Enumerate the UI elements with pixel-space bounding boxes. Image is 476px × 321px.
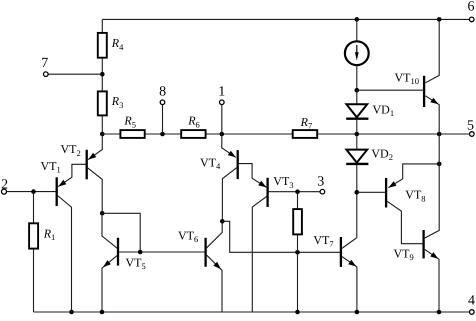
VT9 emitter wire to rail 4 [425, 249, 439, 312]
junction VT8 base node [355, 190, 360, 195]
VT4 collector wire down to node [222, 168, 237, 222]
junction VT10 base node [355, 88, 360, 93]
VT10 emitter wire to net 5 [425, 96, 439, 134]
junction VT7 emitter / rail 4 [355, 310, 360, 315]
resistor R2 (divider) [293, 209, 302, 234]
junction VT4/VT6 collectors node [220, 219, 225, 224]
VT3 emitter arrow [258, 181, 266, 188]
VT4 base wire to VT3 emitter [238, 164, 266, 188]
junction VT5 base node [138, 250, 143, 255]
wire positive rail net 6 [102, 18, 469, 20]
junction terminal 8 node [160, 132, 165, 137]
wire bus R5 to R6 [145, 133, 182, 135]
wire bus R6 to R7 [206, 133, 293, 135]
wire divider resistor to rail 4 [297, 234, 299, 312]
junction top rail / VT10 collector [437, 17, 442, 22]
VT1 emitter wire to VT2 base [58, 164, 86, 186]
terminal 4 [470, 310, 475, 315]
transistor VT10 [423, 76, 425, 107]
VT2 emitter wire from bus node [88, 134, 102, 160]
junction VT2/VT5 collector node [100, 211, 105, 216]
svg-text:1: 1 [218, 85, 225, 100]
junction VT8 emitter / net5 column [437, 162, 442, 167]
VT5 base wire to VT6 base [119, 251, 205, 253]
svg-text:8: 8 [159, 85, 166, 100]
resistor R6 [181, 130, 205, 138]
VT5 emitter wire to rail 4 [102, 256, 117, 312]
terminal 5 [470, 132, 475, 137]
junction divider / VT7 base [295, 250, 300, 255]
VT10 base wire [357, 89, 423, 91]
transistor VT5 [117, 238, 119, 266]
VT7 emitter wire to rail 4 [342, 257, 357, 312]
VT4 emitter arrow [228, 151, 236, 158]
terminal 2 [2, 189, 7, 194]
wire top rail to current source [356, 19, 358, 41]
junction divider / rail 4 [295, 310, 300, 315]
transistor VT7 [340, 237, 342, 267]
wire collector node to VT7 base line [222, 221, 340, 252]
junction terminal 3 / divider resistor [295, 189, 300, 194]
VT9 emitter arrow [430, 252, 438, 259]
resistor R4 [98, 33, 107, 58]
VT9 collector wire up to net 5 [425, 134, 439, 238]
transistor VT1 [56, 177, 58, 206]
VT7 emitter arrow [348, 260, 356, 267]
wire node 3 to divider resistor [297, 192, 299, 209]
junction top rail / current source [355, 17, 360, 22]
terminal 6 [469, 17, 474, 22]
VT4 emitter wire from terminal 1 node [222, 134, 236, 157]
wire mirror node to VT5 base [102, 213, 140, 252]
svg-text:2: 2 [1, 178, 8, 193]
svg-text:3: 3 [317, 174, 324, 189]
junction VT1 collector / rail 4 [69, 310, 74, 315]
wire R4 to R3 [101, 58, 103, 92]
terminal 1 [220, 100, 225, 105]
transistor VT8 [385, 178, 387, 208]
VT1 collector wire to rail 4 [58, 196, 72, 313]
VT1 emitter arrow [58, 180, 66, 187]
wire VD1 cathode to bus [356, 119, 358, 149]
wire current source to VD1 [356, 65, 358, 104]
VT5 emitter arrow [103, 260, 111, 267]
terminal 7 [44, 72, 49, 77]
svg-text:6: 6 [468, 0, 475, 14]
VT3 collector wire to rail 4 [252, 196, 266, 312]
svg-text:4: 4 [468, 293, 475, 308]
junction node 7 [100, 72, 105, 77]
wire terminal 1 drop [221, 105, 223, 134]
wire negative rail net 4 [34, 311, 470, 313]
resistor R1 [29, 223, 38, 248]
VT2 emitter arrow [88, 153, 96, 160]
wire VD2 cathode to VT7 collector [356, 164, 358, 238]
junction R3 / bus / VT2 emitter [100, 132, 105, 137]
VT7 collector wire to VD2 [342, 238, 357, 249]
resistor R3 [98, 91, 107, 115]
VT6 emitter arrow [213, 262, 221, 270]
junction R1 top node [31, 189, 36, 194]
VT5 collector wire up to mirror node [102, 213, 117, 248]
transistor VT6 [204, 238, 206, 267]
VT10 emitter arrow [430, 98, 438, 105]
transistor VT9 [422, 230, 424, 258]
wire top rail down to R4 [101, 19, 103, 33]
VT6 emitter wire to rail 4 [207, 255, 222, 312]
terminal 8 [160, 100, 165, 105]
wire terminal 2 to VT1 base [7, 191, 56, 193]
diode VD1 [346, 104, 367, 117]
wire node to R1 [33, 192, 35, 224]
diode VD2 [346, 150, 367, 163]
junction VT5 emitter / rail 4 [100, 310, 105, 315]
terminal 3 [320, 189, 325, 194]
VT6 collector wire up to VT4 node [207, 221, 223, 248]
wire terminal 7 [48, 73, 102, 75]
VT2 collector wire down to mirror node [88, 168, 103, 214]
resistor R7 [293, 130, 318, 138]
wire bus R7 to terminal 5 (net 5) [317, 133, 469, 135]
wire R1 bottom to rail 4 [33, 249, 35, 312]
junction diode node VD1/VD2 [355, 132, 360, 137]
junction terminal 1 / VT4 emitter node [220, 132, 225, 137]
transistor VT3 [266, 178, 268, 207]
transistor VT4 [237, 150, 239, 179]
current source arrow [356, 45, 358, 54]
wire R3 bottom to bias bus [101, 115, 103, 134]
VT10 collector wire to top rail [425, 19, 439, 82]
VT8 emitter arrow [388, 181, 396, 188]
current source I1 [345, 41, 369, 65]
transistor VT2 [86, 150, 88, 180]
junction VT9 emitter / rail 4 [437, 310, 442, 315]
wire terminal 8 drop [162, 105, 164, 134]
svg-text:5: 5 [467, 119, 474, 134]
resistor R5 [120, 130, 144, 138]
VT8 collector wire to VT9 base [387, 201, 423, 244]
VT8 base wire from diode column [357, 191, 385, 193]
junction net5 / VT10 emitter / VT9 collector [437, 132, 442, 137]
wire bus R3 node to R5 [102, 133, 120, 135]
svg-text:7: 7 [41, 56, 48, 71]
VT8 emitter wire from net5 column [388, 164, 439, 188]
VT3 base wire to terminal 3 [268, 191, 320, 193]
